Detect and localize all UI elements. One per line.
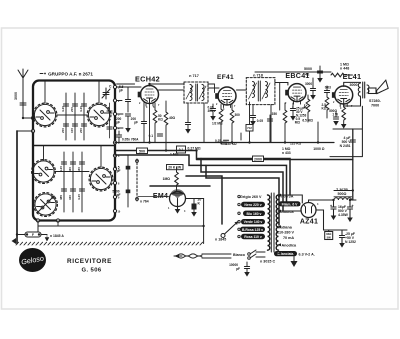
secondary wires to AZ41 xyxy=(281,195,303,203)
svg-text:n 3015 C: n 3015 C xyxy=(260,260,276,264)
svg-text:300: 300 xyxy=(235,113,241,117)
svg-text:pF: pF xyxy=(117,193,121,197)
svg-text:70 mA: 70 mA xyxy=(283,236,294,240)
svg-text:485: 485 xyxy=(59,195,63,200)
svg-text:Grigio 260 V: Grigio 260 V xyxy=(240,195,262,199)
svg-text:pF: pF xyxy=(119,88,123,92)
svg-text:20 K 1W: 20 K 1W xyxy=(168,166,182,170)
selector xyxy=(215,222,238,242)
geloso logo xyxy=(19,248,46,272)
IF transformer 1 n.717 xyxy=(184,74,208,103)
svg-text:Nero 220 v: Nero 220 v xyxy=(244,203,261,207)
svg-text:6.3 V-2 A.: 6.3 V-2 A. xyxy=(299,253,315,257)
svg-text:200: 200 xyxy=(61,128,65,133)
4uF box xyxy=(330,106,362,156)
filter choke xyxy=(334,188,356,200)
svg-text:330: 330 xyxy=(68,167,72,172)
wire box terminal y87 to ECH42 xyxy=(117,86,141,88)
coil can L3 xyxy=(32,160,56,184)
fuse pill n1845A xyxy=(17,221,64,242)
EM4 section xyxy=(136,153,202,217)
EM4 to power junction wires xyxy=(38,199,205,244)
svg-text:pF: pF xyxy=(236,267,240,271)
IF transformer 2 n.718 xyxy=(246,74,275,105)
svg-text:pF: pF xyxy=(116,121,120,125)
svg-text:4-20: 4-20 xyxy=(61,106,65,112)
components under EF41 xyxy=(208,102,254,146)
-25uF cap xyxy=(337,230,356,248)
junction dots xyxy=(148,83,150,85)
svg-text:100: 100 xyxy=(70,128,74,133)
svg-text:3000: 3000 xyxy=(305,82,312,86)
speaker xyxy=(369,80,389,107)
svg-text:210-280 V: 210-280 V xyxy=(277,231,295,235)
cap to ground xyxy=(246,262,248,266)
svg-text:4-20: 4-20 xyxy=(59,166,63,172)
svg-text:7000: 7000 xyxy=(371,104,379,108)
svg-text:Blu 160 v: Blu 160 v xyxy=(247,212,262,216)
svg-text:1 W: 1 W xyxy=(332,113,338,117)
svg-text:3000: 3000 xyxy=(350,83,358,87)
svg-text:n 764: n 764 xyxy=(140,200,149,204)
svg-text:AZ41: AZ41 xyxy=(300,219,318,226)
svg-text:4Ω: 4Ω xyxy=(305,73,310,77)
coil can L5 with arrow xyxy=(34,193,58,217)
svg-text:KΩ: KΩ xyxy=(158,118,163,122)
chassis arrow bottom-left xyxy=(12,238,17,244)
svg-text:+: + xyxy=(330,204,332,208)
GRUPPO A.F. box xyxy=(33,81,115,221)
svg-text:350: 350 xyxy=(272,112,278,116)
16uF caps xyxy=(330,200,354,222)
svg-text:pF: pF xyxy=(134,121,138,125)
svg-text:4-20: 4-20 xyxy=(77,194,81,200)
extra coupling wires xyxy=(58,84,215,226)
svg-text:Verde 140 v: Verde 140 v xyxy=(244,220,263,224)
EL41 cathode xyxy=(329,104,346,129)
svg-text:1MΩ: 1MΩ xyxy=(163,177,171,181)
svg-text:4-20: 4-20 xyxy=(79,106,83,112)
coil can L2 xyxy=(87,103,111,127)
pin number specks xyxy=(139,101,353,213)
secondary tap arrows xyxy=(277,194,281,255)
svg-text:n 718: n 718 xyxy=(253,74,263,78)
svg-text:5000: 5000 xyxy=(304,67,312,71)
svg-text:1000 Ω: 1000 Ω xyxy=(313,147,324,151)
svg-text:200: 200 xyxy=(70,107,74,112)
left outer ground rail xyxy=(17,130,33,132)
cap columns row2 xyxy=(64,152,82,212)
mains cord xyxy=(174,250,265,277)
svg-text:ECH42: ECH42 xyxy=(135,75,160,84)
EM4 area caps xyxy=(112,155,169,207)
chassis dashed line xyxy=(16,242,203,245)
svg-text:0.05: 0.05 xyxy=(257,119,263,123)
svg-text:4.35W: 4.35W xyxy=(338,213,349,217)
svg-text:N 1252: N 1252 xyxy=(345,240,356,244)
box terminals left/bottom xyxy=(31,129,34,132)
svg-text:0.03: 0.03 xyxy=(325,86,331,90)
components under ECH42 xyxy=(131,101,176,151)
svg-text:Rosa 110 v: Rosa 110 v xyxy=(244,235,262,239)
svg-text:S7280-: S7280- xyxy=(369,99,382,103)
svg-text:n 760A: n 760A xyxy=(128,138,139,142)
svg-text:5W: 5W xyxy=(327,236,332,240)
svg-text:125 KΩ: 125 KΩ xyxy=(290,142,302,146)
wire terminal y100.5 right xyxy=(117,100,122,102)
svg-text:200: 200 xyxy=(79,128,83,133)
svg-text:+: + xyxy=(352,204,354,208)
svg-text:n 717: n 717 xyxy=(189,74,199,78)
inner right cap column xyxy=(107,103,112,138)
cap columns row1 xyxy=(66,93,84,140)
svg-text:EL41: EL41 xyxy=(343,72,362,81)
output transformer + speaker xyxy=(350,82,370,98)
svg-text:0.27 MΩ: 0.27 MΩ xyxy=(188,147,201,151)
svg-text:G. 506: G. 506 xyxy=(82,268,102,274)
IF box drops xyxy=(188,103,271,143)
boxed 0.1 and 0.27Mn xyxy=(177,146,201,153)
svg-text:n 1845: n 1845 xyxy=(215,238,226,242)
components under EBC41 xyxy=(257,103,307,155)
svg-text:B.Rosa 125 v: B.Rosa 125 v xyxy=(242,228,263,232)
svg-text:40Ω: 40Ω xyxy=(169,116,176,120)
svg-text:Anodica: Anodica xyxy=(282,244,297,248)
transformer ground xyxy=(293,257,295,262)
svg-text:RICEVITORE: RICEVITORE xyxy=(67,258,112,265)
antenna xyxy=(14,69,28,118)
right B+ rail xyxy=(352,129,354,200)
terminal numbers xyxy=(118,87,121,214)
36ohm resistor box xyxy=(324,230,338,240)
power transformer xyxy=(268,193,279,252)
svg-text:GRUPPO A.F. n 2671: GRUPPO A.F. n 2671 xyxy=(48,71,93,76)
wire antenna to box xyxy=(23,117,33,119)
top bus line xyxy=(255,71,331,73)
svg-text:MΩ: MΩ xyxy=(295,121,301,125)
svg-text:2000: 2000 xyxy=(254,158,262,162)
svg-text:0.1: 0.1 xyxy=(179,148,184,152)
middle long bus lines xyxy=(115,142,334,144)
svg-text:EF41: EF41 xyxy=(217,74,234,81)
svg-text:n 448: n 448 xyxy=(340,67,349,71)
svg-text:500: 500 xyxy=(139,150,145,154)
svg-text:N 2451: N 2451 xyxy=(340,144,351,148)
svg-text:160: 160 xyxy=(77,167,81,172)
wires tubes to IF xyxy=(149,84,151,86)
svg-text:pF: pF xyxy=(117,169,121,173)
svg-text:1/2 MΩ: 1/2 MΩ xyxy=(212,122,223,126)
boxed 500 on line xyxy=(137,148,148,154)
svg-text:n 1845 A: n 1845 A xyxy=(50,234,64,238)
coil can L4 xyxy=(89,167,113,191)
svg-text:712: 712 xyxy=(247,126,252,130)
svg-text:Bianco: Bianco xyxy=(233,253,246,257)
can top leads xyxy=(44,81,102,172)
EL41 anode wires xyxy=(344,82,361,86)
coil can L1 xyxy=(33,103,57,127)
volume pot and coupling between EBC41 and EL41 xyxy=(295,73,332,152)
oscillator components between box and ECH42 xyxy=(116,85,141,143)
svg-text:500Ω: 500Ω xyxy=(338,192,347,196)
svg-text:330: 330 xyxy=(68,195,72,200)
trimmer top right of box xyxy=(102,85,112,100)
svg-text:F: F xyxy=(32,233,34,237)
svg-text:3000: 3000 xyxy=(14,92,18,100)
svg-text:n 433: n 433 xyxy=(282,151,291,155)
svg-text:KΩ: KΩ xyxy=(322,107,327,111)
svg-text:6.5 MΩ: 6.5 MΩ xyxy=(302,119,313,123)
svg-text:Filam. 6 V: Filam. 6 V xyxy=(282,202,299,206)
primary tap terminals xyxy=(238,195,240,237)
box terminals right edge xyxy=(113,85,116,88)
